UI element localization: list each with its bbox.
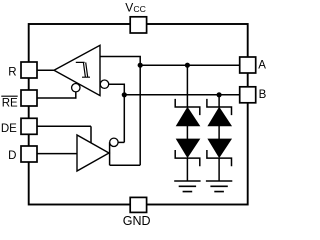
pin DE box <box>21 118 37 134</box>
wire: D2 to ground <box>186 158 188 181</box>
wire: vertical bus x=124.3 down to driver Z output <box>123 95 125 143</box>
zener D1 anode triangle (points up) <box>176 108 199 126</box>
zener D3 (right column, top): cathode bar <box>207 99 232 115</box>
driver output bar <box>109 142 111 165</box>
wire: receiver input from right edge to vertical bus <box>100 57 140 66</box>
pin D box <box>21 146 37 162</box>
wire: driver Y output to vertical bus <box>110 164 141 166</box>
wire: between D3 and D4 <box>218 126 220 139</box>
zener D4 cathode bar <box>207 150 232 166</box>
svg-text:RE: RE <box>2 98 18 110</box>
svg-text:DE: DE <box>1 123 17 135</box>
junction dot: A line / bus <box>138 63 143 68</box>
wire: between D1 and D2 <box>186 126 188 139</box>
wire: DE drop to driver top edge <box>90 126 92 143</box>
pin B box <box>240 87 256 103</box>
wire: D pin to driver input <box>37 153 77 155</box>
zener D1 (left column, top): cathode bar <box>175 99 200 115</box>
pin A box <box>240 57 256 73</box>
zener D3 anode triangle (points up) <box>208 108 231 126</box>
bubble: receiver enable (RE) on bottom edge <box>72 84 80 92</box>
zener D4 (right column, bottom) anode triangle (points down) <box>208 139 231 157</box>
pin GND box <box>130 197 146 212</box>
wire: left TVS column from A line <box>186 65 188 107</box>
junction dot: B line / bus <box>122 92 127 97</box>
wire: DE pin horizontal <box>37 125 91 127</box>
bubble: driver inverting (Z) output <box>110 138 118 146</box>
svg-text:B: B <box>259 89 267 101</box>
svg-text:A: A <box>258 60 266 72</box>
wire: vertical bus x=140.2 down to driver output line <box>139 65 141 165</box>
receiver U1 (triangle with hysteresis) <box>54 45 100 95</box>
svg-text:R: R <box>8 66 16 78</box>
wire: A line to pin A <box>140 64 240 66</box>
pin RE box <box>21 90 37 106</box>
ground (left) <box>174 181 200 192</box>
zener D2 (left column, bottom) anode triangle (points down) <box>176 139 199 157</box>
overline for RE <box>1 95 17 97</box>
wire: receiver inverting input bubble to vertical bus <box>109 84 125 95</box>
bubble: receiver inverting input on right edge <box>100 80 108 88</box>
ground (right) <box>206 181 232 192</box>
hysteresis symbol inside U1 <box>76 62 90 77</box>
zener D2 cathode bar <box>175 150 200 166</box>
wire: right TVS column from B line <box>218 95 220 107</box>
driver U2 (triangle) <box>77 135 109 171</box>
pin R box <box>21 62 37 78</box>
junction dot: B line / right TVS column <box>217 92 222 97</box>
wire: RE pin to enable bubble (horizontal) <box>37 97 77 99</box>
wire: D4 to ground <box>218 158 220 181</box>
pin VCC box <box>130 17 146 33</box>
IC boundary rectangle <box>29 24 248 205</box>
wire: R output from receiver apex to R pin <box>37 69 55 71</box>
wire: B line to pin B <box>124 94 240 96</box>
wire: driver Z bubble to vertical bus <box>118 141 124 143</box>
svg-text:GND: GND <box>123 214 151 228</box>
wire: RE riser up to enable bubble <box>75 92 77 99</box>
junction dot: A line / left TVS column <box>185 63 190 68</box>
svg-text:D: D <box>8 150 16 162</box>
